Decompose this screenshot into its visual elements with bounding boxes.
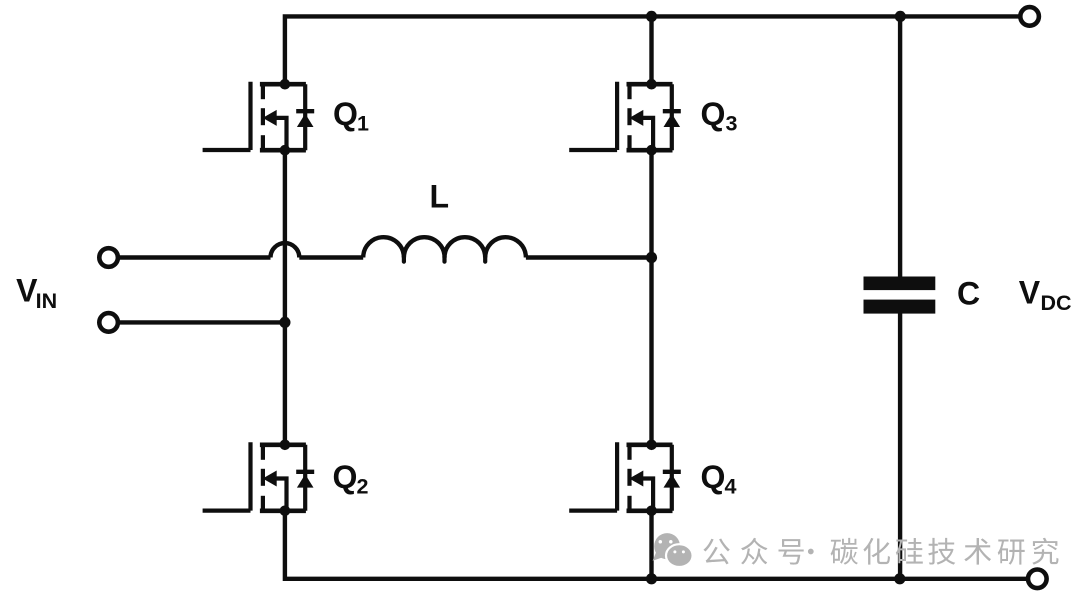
transistor Q4 (N-MOSFET with body diode) bbox=[569, 440, 681, 517]
svg-text:1: 1 bbox=[357, 111, 369, 135]
watermark text char 硅 bbox=[896, 538, 923, 564]
junction: bottom rail / capacitor bbox=[894, 573, 905, 584]
wire: bottom rail from Q2 source to V_DC- terminal bbox=[285, 511, 1037, 579]
capacitor C (two plates) bbox=[864, 277, 936, 291]
watermark text char 众 bbox=[741, 538, 767, 565]
wire: V_IN+ lead from terminal to crossover bbox=[109, 255, 271, 259]
watermark text char 碳 bbox=[831, 538, 858, 565]
junction: V_IN- / node A bbox=[279, 317, 290, 328]
inductor L winding cusps bbox=[404, 257, 485, 262]
watermark text char 研 bbox=[998, 540, 1025, 565]
wire: top rail from Q1 drain to V_DC+ terminal bbox=[285, 16, 1030, 84]
watermark text char 公 bbox=[703, 539, 729, 565]
wire: Q3 drain from top rail bbox=[649, 16, 653, 84]
svg-text:Q: Q bbox=[701, 96, 726, 132]
wire: Q3 source to Q4 drain (switch node B) bbox=[649, 150, 653, 445]
svg-text:L: L bbox=[430, 178, 450, 214]
svg-text:3: 3 bbox=[726, 111, 738, 135]
svg-text:C: C bbox=[957, 275, 980, 311]
watermark text char 术 bbox=[964, 538, 991, 565]
svg-text:Q: Q bbox=[333, 96, 358, 132]
junction: top rail / capacitor bbox=[895, 11, 906, 22]
watermark text char 化 bbox=[863, 538, 890, 565]
svg-text:Q: Q bbox=[701, 459, 726, 495]
transistor Q1 (N-MOSFET with body diode) bbox=[203, 79, 315, 156]
junction: top rail / Q3 drain bbox=[646, 11, 657, 22]
svg-text:Q: Q bbox=[333, 459, 358, 495]
watermark WeChat icon bbox=[653, 533, 693, 567]
watermark separator dot bbox=[808, 549, 814, 555]
svg-text:4: 4 bbox=[725, 475, 737, 499]
terminal: V_IN negative bbox=[99, 313, 118, 332]
wire: Q4 source to bottom rail bbox=[649, 511, 653, 579]
svg-text:IN: IN bbox=[36, 289, 58, 313]
svg-text:DC: DC bbox=[1041, 291, 1072, 315]
terminal: V_IN positive bbox=[99, 248, 118, 267]
transistor Q3 (N-MOSFET with body diode) bbox=[569, 79, 681, 156]
watermark text char 究 bbox=[1032, 538, 1058, 565]
wire: capacitor bottom leg to bottom rail bbox=[898, 313, 902, 579]
watermark text char 号 bbox=[779, 539, 804, 564]
wire: Q1 source to Q2 drain (switch node A) bbox=[283, 150, 287, 445]
svg-text:2: 2 bbox=[357, 475, 369, 499]
terminal: V_DC negative bbox=[1028, 570, 1047, 589]
wire: crossover to inductor L left lead bbox=[299, 255, 363, 259]
wire: capacitor top leg from top rail bbox=[898, 16, 902, 277]
svg-text:V: V bbox=[1019, 275, 1041, 311]
wire: inductor L right lead to node B bbox=[526, 255, 652, 259]
inductor L (4 humps) bbox=[363, 237, 526, 257]
junction: bottom rail / Q4 source bbox=[646, 573, 657, 584]
wire: crossover hop over switch-node A (no connection) bbox=[271, 243, 300, 257]
watermark text char 技 bbox=[928, 538, 955, 565]
wire: V_IN- lead from terminal to node A junction bbox=[109, 320, 285, 324]
transistor Q2 (N-MOSFET with body diode) bbox=[203, 440, 315, 517]
junction: inductor / node B bbox=[646, 252, 657, 263]
terminal: V_DC positive bbox=[1020, 7, 1039, 26]
